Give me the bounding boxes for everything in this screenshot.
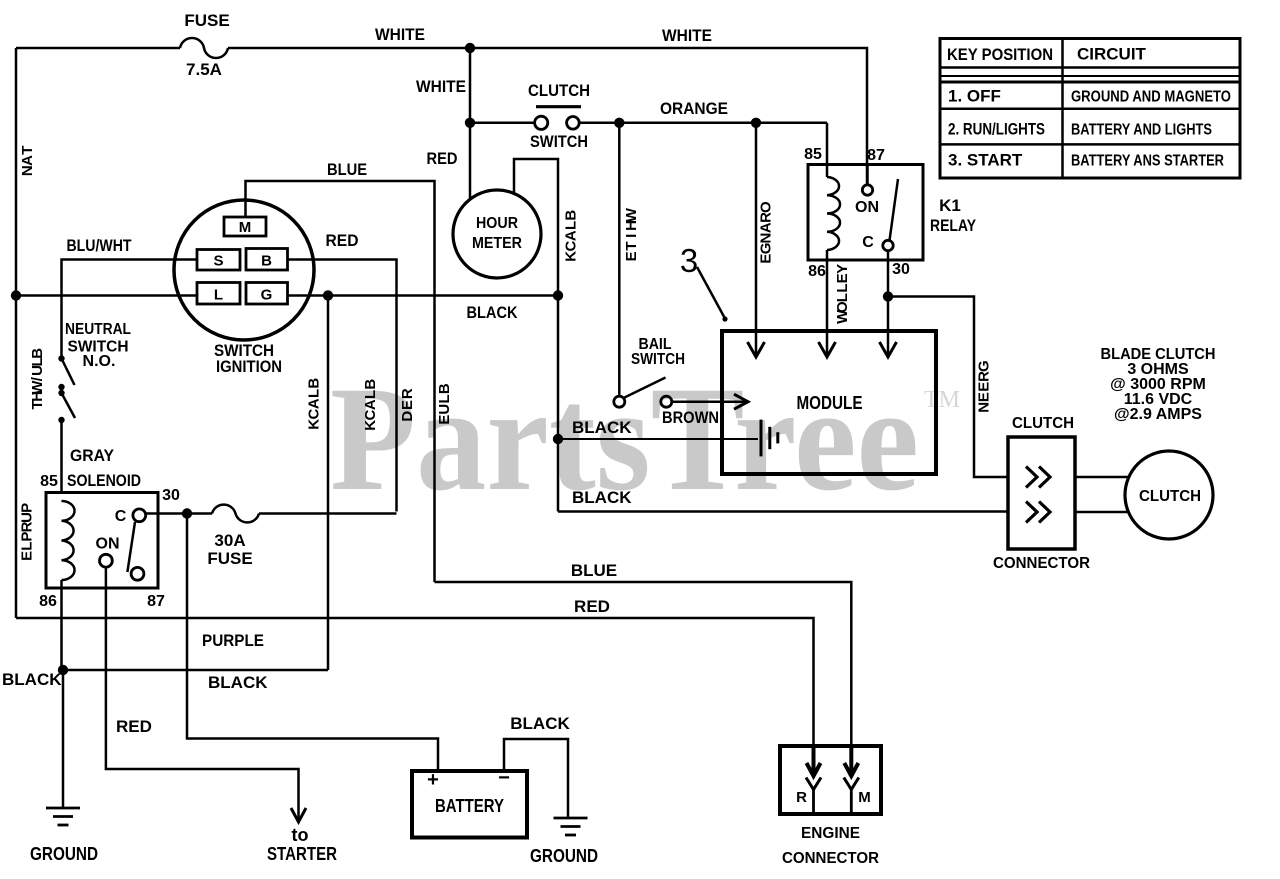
terminal B box [246, 249, 288, 271]
label BLACK (vertical) [306, 378, 323, 430]
wire WHITE to bail switch [618, 123, 621, 396]
svg-text:RED: RED [574, 597, 610, 616]
svg-text:G: G [261, 287, 273, 304]
table divider vertical [1061, 39, 1064, 179]
wire battery negative to ground [504, 739, 568, 818]
svg-text:L: L [306, 389, 323, 398]
wire PURPLE/RED bottom bus [16, 618, 814, 746]
svg-text:GROUND: GROUND [530, 846, 598, 866]
fuse F2 30A [212, 505, 259, 523]
wire 30A fuse to RED drop [259, 512, 397, 515]
svg-text:30: 30 [892, 261, 910, 278]
clutch connector chevron 1a [1026, 467, 1037, 488]
svg-text:B: B [306, 378, 323, 389]
solenoid box [46, 493, 158, 589]
svg-text:BATTERY AND LIGHTS: BATTERY AND LIGHTS [1071, 122, 1212, 139]
svg-text:85: 85 [40, 473, 58, 490]
svg-text:3. START: 3. START [948, 151, 1023, 170]
leader line for note 3 [697, 267, 725, 319]
battery box [412, 771, 527, 838]
svg-text:CONNECTOR: CONNECTOR [993, 555, 1090, 572]
svg-text:BLACK: BLACK [572, 488, 632, 507]
wire BLACK bottom run [63, 669, 328, 672]
node junction white/orange at bail branch [614, 118, 624, 128]
svg-text:CIRCUIT: CIRCUIT [1077, 45, 1147, 64]
svg-text:@2.9 AMPS: @2.9 AMPS [1114, 406, 1202, 423]
wire WHITE drop to clutch switch [469, 48, 472, 123]
svg-text:P: P [19, 532, 36, 542]
svg-text:WHITE: WHITE [416, 77, 466, 96]
svg-text:D: D [399, 411, 416, 422]
svg-text:A: A [563, 230, 580, 241]
svg-text:R: R [399, 388, 416, 399]
svg-text:A: A [306, 398, 323, 409]
relay K1 box [808, 165, 923, 261]
module input arrow (yellow) [819, 342, 836, 357]
svg-text:E: E [19, 551, 36, 561]
svg-text:L: L [563, 221, 580, 230]
relay contact ON (87) [862, 185, 872, 195]
wire battery positive feed [187, 514, 438, 772]
wire clutch switch to orange bus [579, 122, 827, 125]
clutch connector chevron 1b [1039, 467, 1050, 488]
svg-text:E: E [976, 382, 993, 392]
terminal M box [224, 217, 266, 236]
svg-text:N: N [19, 165, 36, 176]
svg-text:C: C [862, 234, 874, 251]
table line thin 1 [940, 75, 1240, 77]
table line row1 [940, 107, 1240, 110]
svg-text:BLUE: BLUE [571, 561, 617, 580]
wire connector to clutch lower [1075, 511, 1129, 514]
relay coil [827, 177, 840, 250]
ground symbol left [46, 808, 80, 825]
neutral switch terminal b [58, 384, 64, 390]
svg-text:U: U [436, 404, 453, 415]
node junction module ground branch [553, 434, 563, 444]
svg-text:BLUE: BLUE [327, 160, 367, 179]
svg-text:A: A [19, 155, 36, 166]
wire BROWN into module [672, 400, 748, 403]
wire connector to clutch upper [1075, 476, 1129, 479]
svg-text:N: N [758, 233, 775, 244]
label PURPLE (vertical) [19, 503, 36, 561]
wire BLACK module bottom long run [558, 510, 1008, 513]
wire neutral switch to solenoid coil [60, 420, 63, 493]
svg-text:ON: ON [855, 199, 879, 216]
wire from terminal G [288, 294, 559, 297]
svg-text:85: 85 [804, 146, 822, 163]
wire to 30A fuse [187, 512, 212, 515]
svg-text:L: L [362, 390, 379, 399]
svg-text:W: W [834, 309, 851, 324]
svg-text:RED: RED [116, 717, 152, 736]
solenoid contact ON [100, 554, 113, 567]
svg-text:K: K [362, 420, 379, 431]
neutral switch terminal a [58, 355, 64, 361]
terminal S box [197, 250, 240, 271]
wire relay 30 down [887, 251, 890, 297]
svg-text:BLACK: BLACK [208, 673, 268, 692]
svg-text:KEY POSITION: KEY POSITION [947, 45, 1053, 64]
svg-text:HOUR: HOUR [476, 215, 518, 232]
engine connector pin M arrowhead [844, 746, 858, 776]
svg-text:BATTERY ANS STARTER: BATTERY ANS STARTER [1071, 153, 1224, 170]
wire ORANGE to module [755, 123, 758, 356]
svg-text:7.5A: 7.5A [186, 60, 222, 79]
svg-text:H: H [29, 391, 46, 402]
svg-text:T: T [19, 146, 36, 155]
clutch connector box [1008, 437, 1075, 549]
engine connector pin R arrowhead [807, 746, 821, 776]
svg-text:G: G [976, 360, 993, 372]
svg-text:BLACK: BLACK [572, 418, 632, 437]
wire RED from terminal B [288, 260, 397, 512]
bail switch blade [624, 378, 666, 399]
svg-text:RELAY: RELAY [930, 216, 977, 235]
svg-text:BLU/WHT: BLU/WHT [67, 236, 133, 255]
svg-text:N: N [976, 402, 993, 413]
svg-text:30: 30 [162, 487, 180, 504]
module input arrow (brown) [734, 394, 748, 409]
wire BLUE from terminal M [246, 181, 435, 582]
svg-text:NEUTRAL: NEUTRAL [65, 321, 131, 338]
solenoid blade [127, 522, 135, 572]
wire BLU/WHT from terminal S [62, 260, 198, 359]
wire BLACK to ground [62, 670, 65, 808]
label ORANGE (vertical) [758, 201, 775, 264]
wire relay 87 from white bus [866, 165, 869, 186]
svg-text:RED: RED [427, 149, 458, 168]
svg-text:ORANGE: ORANGE [660, 99, 728, 118]
svg-text:L: L [834, 293, 851, 302]
node junction clutch-switch / hour-meter [465, 118, 475, 128]
svg-text:WHITE: WHITE [662, 26, 712, 45]
engine connector box [780, 746, 881, 814]
node junction black/ground [58, 665, 68, 675]
svg-text:B: B [436, 383, 453, 394]
svg-text:R: R [758, 212, 775, 223]
table line row2 [940, 143, 1240, 146]
svg-text:86: 86 [39, 593, 57, 610]
label TAN (vertical) [19, 146, 36, 177]
svg-text:SWITCH: SWITCH [631, 351, 685, 368]
svg-text:S: S [213, 253, 223, 270]
svg-text:K: K [306, 419, 323, 430]
neutral switch terminal c [58, 390, 64, 396]
wire to clutch switch [470, 122, 534, 125]
solenoid coil [62, 501, 75, 580]
svg-text:+: + [427, 769, 439, 791]
svg-text:CONNECTOR: CONNECTOR [782, 850, 879, 867]
wire WHITE top bus left segment [16, 47, 180, 50]
module internal ground symbol [761, 420, 778, 457]
svg-text:C: C [563, 240, 580, 251]
label YELLOW (vertical) [834, 264, 851, 324]
svg-text:E: E [623, 251, 640, 261]
svg-text:IGNITION: IGNITION [216, 357, 282, 376]
node junction TAN/L wire [11, 290, 21, 300]
svg-text:FUSE: FUSE [184, 11, 229, 30]
svg-text:C: C [115, 508, 127, 525]
label BLUE (vertical) [436, 383, 453, 424]
svg-text:METER: METER [472, 235, 522, 252]
svg-text:SOLENOID: SOLENOID [67, 471, 141, 490]
to-starter arrowhead [291, 808, 306, 822]
svg-text:ON: ON [96, 536, 120, 553]
svg-text:C: C [362, 409, 379, 420]
svg-text:to: to [292, 825, 309, 845]
svg-text:L: L [436, 394, 453, 403]
svg-text:R: R [19, 521, 36, 532]
label BLACK (vertical) [563, 210, 580, 262]
terminal G box [246, 283, 288, 305]
terminal L box [197, 283, 240, 305]
neutral switch blade 2 [62, 393, 76, 418]
svg-text:T: T [623, 241, 640, 250]
solenoid contact C [133, 509, 146, 522]
svg-text:C: C [306, 408, 323, 419]
svg-text:B: B [29, 348, 46, 359]
svg-text:P: P [19, 503, 36, 513]
svg-text:R: R [976, 371, 993, 382]
clutch switch contact right [567, 117, 580, 130]
module box [722, 331, 936, 474]
wire RED to hour meter [469, 123, 472, 199]
svg-text:GROUND: GROUND [30, 844, 98, 864]
neutral switch terminal d [58, 417, 64, 423]
svg-text:U: U [19, 512, 36, 523]
svg-text:30A: 30A [214, 531, 245, 550]
svg-text:A: A [758, 222, 775, 233]
relay blade [890, 179, 899, 241]
svg-text:1. OFF: 1. OFF [948, 87, 1001, 106]
neutral switch blade 1 [62, 359, 75, 386]
svg-text:CLUTCH: CLUTCH [1012, 415, 1074, 432]
node junction relay30/green [883, 291, 893, 301]
svg-text:B: B [261, 253, 272, 270]
brown input contact [661, 396, 672, 407]
svg-text:L: L [834, 283, 851, 292]
svg-text:2. RUN/LIGHTS: 2. RUN/LIGHTS [948, 120, 1045, 139]
svg-text:M: M [239, 219, 252, 236]
svg-text:SWITCH: SWITCH [530, 132, 588, 151]
table line thin 2 [940, 81, 1240, 84]
svg-text:K: K [563, 251, 580, 262]
svg-text:GROUND AND MAGNETO: GROUND AND MAGNETO [1071, 89, 1231, 106]
svg-text:STARTER: STARTER [267, 844, 337, 864]
wire TAN left vertical [15, 48, 18, 618]
svg-text:I: I [623, 234, 640, 238]
wire BLACK module-left drop [557, 296, 560, 512]
svg-text:M: M [858, 789, 871, 806]
svg-text:N.O.: N.O. [83, 353, 116, 370]
svg-text:L: L [214, 287, 223, 304]
clutch connector chevron 2b [1039, 502, 1050, 523]
clutch switch actuator bar [536, 105, 581, 108]
clutch switch contact left [535, 116, 548, 129]
svg-text:MODULE: MODULE [797, 392, 863, 413]
wire YELLOW relay coil to module [826, 250, 829, 356]
svg-text:87: 87 [147, 593, 165, 610]
key position table frame [940, 39, 1240, 179]
svg-text:BLACK: BLACK [510, 714, 570, 733]
svg-text:A: A [362, 399, 379, 410]
svg-text:ENGINE: ENGINE [801, 825, 860, 842]
wire BLACK hour meter loop [514, 159, 558, 296]
wire from terminal L to left bus [16, 294, 197, 297]
svg-text:K1: K1 [939, 196, 961, 215]
svg-text:E: E [834, 273, 851, 283]
svg-text:PURPLE: PURPLE [202, 631, 264, 650]
wire RED solenoid ON to starter [106, 567, 299, 820]
solenoid contact 87 (open) [131, 567, 144, 580]
wire solenoid coil to ground run [60, 580, 63, 670]
ground symbol right [554, 818, 588, 835]
svg-text:GRAY: GRAY [70, 446, 115, 465]
svg-text:R: R [796, 789, 807, 806]
svg-text:E: E [976, 392, 993, 402]
wire BLACK drop from G junction [327, 296, 330, 671]
svg-text:Y: Y [834, 264, 851, 274]
table line header [940, 66, 1240, 69]
svg-text:H: H [623, 220, 640, 231]
wire WHITE top bus right segment [228, 48, 867, 185]
svg-text:B: B [563, 210, 580, 221]
svg-text:WHITE: WHITE [375, 25, 425, 44]
svg-text:E: E [436, 415, 453, 425]
wire solenoid C to fuse [146, 512, 187, 515]
svg-text:TM: TM [924, 387, 960, 413]
clutch connector chevron 2a [1026, 502, 1037, 523]
svg-text:3: 3 [680, 242, 698, 279]
svg-text:BLACK: BLACK [2, 670, 62, 689]
clutch [1125, 451, 1213, 539]
fuse F1 [180, 38, 228, 58]
svg-text:BLACK: BLACK [467, 303, 519, 322]
svg-text:86: 86 [808, 263, 826, 280]
svg-text:O: O [758, 201, 775, 213]
svg-text:E: E [399, 400, 416, 410]
relay contact C (30) [883, 240, 893, 250]
label BLACK (vertical) [362, 379, 379, 431]
svg-text:RED: RED [326, 231, 359, 250]
wire BLUE long run [435, 582, 852, 746]
module input arrow (relay 30) [880, 342, 897, 357]
module input arrow (orange) [748, 342, 765, 357]
node junction top bus / hour-meter branch [465, 43, 475, 53]
svg-text:G: G [758, 243, 775, 255]
node junction solenoid30/battery [182, 508, 192, 518]
label WHITE (vertical) [623, 207, 640, 261]
svg-text:BATTERY: BATTERY [435, 796, 504, 816]
engine connector pin M socket [844, 778, 859, 790]
wire relay 30 to module [887, 297, 890, 357]
svg-text:CLUTCH: CLUTCH [1139, 488, 1201, 505]
svg-text:W: W [623, 207, 640, 222]
svg-text:L: L [19, 542, 36, 551]
svg-text:FUSE: FUSE [207, 549, 252, 568]
engine connector pin R tail [812, 790, 815, 814]
label BLU/WHT (vertical) [29, 348, 46, 410]
svg-text:U: U [29, 365, 46, 376]
node junction G/black drop [323, 290, 333, 300]
svg-text:CLUTCH: CLUTCH [528, 81, 590, 100]
wire BLACK thin to module ground [558, 438, 758, 440]
svg-text:BROWN: BROWN [662, 408, 719, 427]
svg-text:E: E [758, 254, 775, 264]
label GREEN (vertical) [976, 360, 993, 412]
engine connector pin R socket [806, 778, 821, 790]
node junction G/hour-meter black [553, 290, 563, 300]
svg-text:B: B [362, 379, 379, 390]
node junction orange branch [751, 118, 761, 128]
wire GREEN relay30 to clutch connector [888, 297, 1008, 478]
engine connector pin M tail [850, 790, 853, 814]
wire ORANGE to relay coil [826, 123, 829, 177]
label RED (vertical) [399, 388, 416, 422]
hour meter [453, 190, 541, 278]
svg-text:87: 87 [867, 147, 885, 164]
bail switch contact [614, 396, 625, 407]
svg-text:T: T [29, 400, 46, 409]
ignition switch body [174, 200, 314, 340]
